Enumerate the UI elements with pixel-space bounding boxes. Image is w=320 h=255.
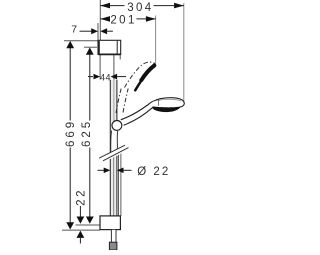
dimension 625 bbox=[81, 47, 94, 223]
hand shower head bbox=[148, 98, 185, 108]
hose outlet below bracket bbox=[111, 230, 116, 242]
svg-text:7: 7 bbox=[71, 24, 77, 36]
extension line 7mm left bbox=[97, 23, 99, 41]
phantom shower head dashed edge bbox=[125, 62, 156, 87]
slide bar bbox=[110, 80, 117, 216]
hand shower spray face bbox=[152, 106, 181, 112]
dimension 304 bbox=[100, 2, 184, 14]
svg-text:Ø 22: Ø 22 bbox=[137, 166, 170, 178]
bar axis extension below bracket bbox=[113, 55, 115, 80]
svg-text:304: 304 bbox=[127, 2, 153, 14]
top wall bracket bbox=[98, 40, 121, 59]
break symbol slashes bbox=[99, 145, 129, 161]
wall extension below bracket bbox=[99, 55, 101, 80]
bottom reference line bracket bottom bbox=[62, 229, 100, 231]
dimension 44 bbox=[88, 73, 126, 83]
svg-text:201: 201 bbox=[110, 14, 136, 26]
wall extension line bbox=[99, 0, 101, 41]
hose right section bbox=[119, 153, 121, 216]
bottom reference line bar end bbox=[76, 224, 101, 226]
phantom shower handle dashed bbox=[116, 88, 128, 113]
bottom wall bracket bbox=[100, 216, 120, 230]
top reference line 625 bbox=[84, 46, 97, 48]
holder knob bbox=[112, 121, 122, 131]
hand shower handle bbox=[121, 105, 153, 125]
extension line 304 end bbox=[183, 3, 185, 102]
dimension 22 bottom bbox=[76, 188, 88, 244]
hose front section below holder bbox=[111, 131, 118, 152]
top reference line 669 bbox=[64, 40, 99, 42]
svg-text:669: 669 bbox=[65, 119, 77, 147]
hose nut bbox=[109, 242, 117, 250]
dimension 201 bbox=[100, 14, 155, 26]
dimension 669 bbox=[65, 41, 77, 230]
extension line 201 end bbox=[155, 16, 157, 64]
svg-text:625: 625 bbox=[81, 119, 93, 147]
svg-text:22: 22 bbox=[76, 188, 88, 206]
break symbol white band bbox=[98, 144, 128, 165]
dimension 7 bbox=[71, 24, 113, 36]
dimension diameter 22 bbox=[98, 166, 171, 178]
svg-text:44: 44 bbox=[100, 73, 111, 83]
phantom head spray face bbox=[135, 66, 154, 91]
